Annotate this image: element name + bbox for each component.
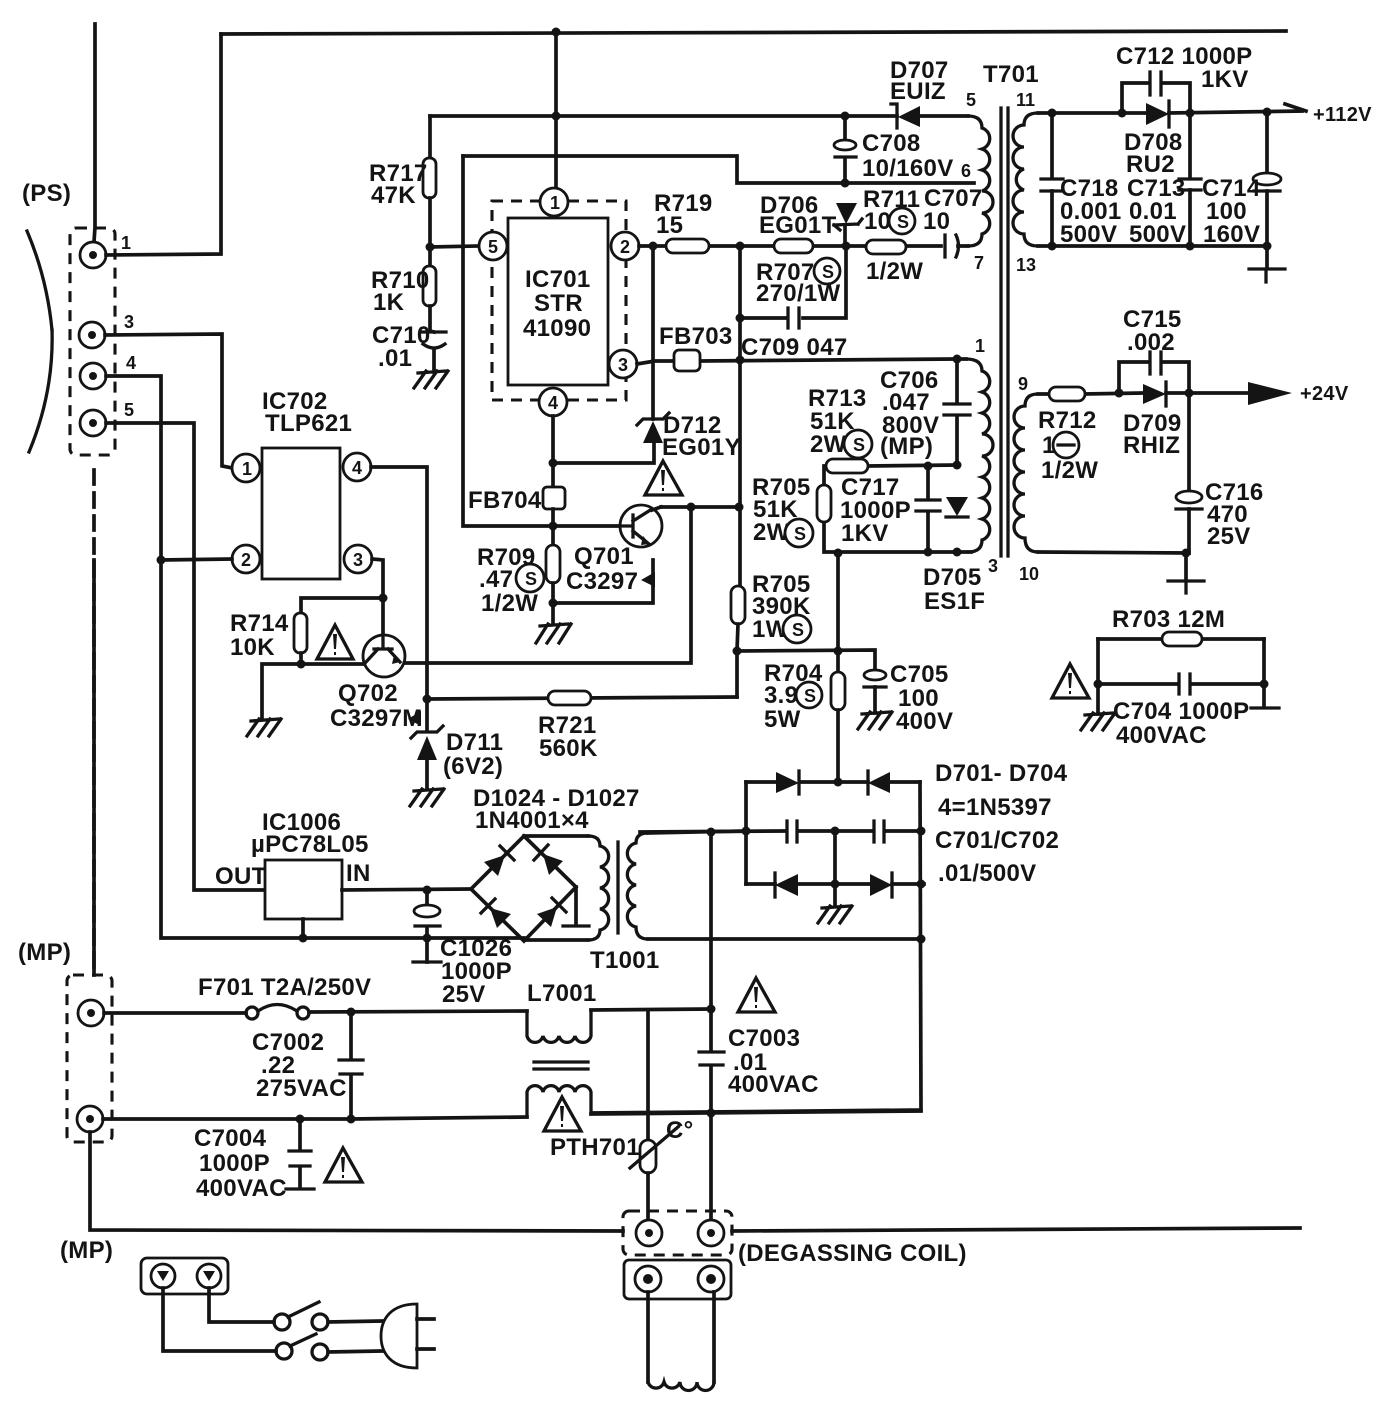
wire: IC702 pin2 to left vertical [161,559,232,560]
wire: IC701 pin3 feedback rail to T701 pin1 [637,359,966,364]
svg-text:47K: 47K [371,182,416,209]
ferrite bead FB704 [543,487,565,509]
IC701 pin 5 [479,232,507,260]
ground under C710 [414,371,448,388]
junction mid rail center [831,827,840,836]
mains plug [381,1304,417,1368]
junction R704 top [834,647,843,656]
svg-text:400V: 400V [896,708,953,735]
svg-text:C701/C702: C701/C702 [935,827,1059,854]
capacitor C714 electrolytic [1265,112,1269,246]
capacitor C715 bypass loop [1119,362,1189,393]
svg-text:400VAC: 400VAC [196,1175,287,1202]
wire: 24V return rail pin 10 [1038,552,1189,553]
wire: PS box to MP connector vertical [92,470,96,975]
junction R721 tap [423,695,432,704]
svg-text:C709 047: C709 047 [741,334,848,361]
resistor R710 [423,266,436,306]
wire: PS pin1 to top bus [106,34,221,255]
bridge mid rail with C701 C702 [640,831,921,832]
ground under C705 [858,712,892,729]
wire: pin2 snubber rail y246 [639,244,968,248]
svg-text:1N4001×4: 1N4001×4 [475,807,589,834]
connector PS dashed outline [70,228,115,455]
junction pin1 rail [552,112,561,121]
svg-text:PTH701: PTH701 [550,1134,640,1161]
svg-text:.47: .47 [479,566,513,593]
degaussing coil loop [646,1292,650,1382]
capacitor C717 [926,466,930,552]
svg-text:2W: 2W [810,431,847,458]
junction C708 bottom [841,179,850,188]
capacitor C7004 [298,1119,302,1188]
junction C704 left [1094,680,1103,689]
capacitor C710 [430,306,434,332]
junction C7002 bottom [347,1115,356,1124]
junction FB703 rail crossing [736,356,745,365]
resistor R704 body [836,553,840,672]
capacitor C704 [1098,682,1264,686]
IC702 pin 3 [344,545,372,573]
bridge right leg [594,782,921,1113]
svg-text:15: 15 [656,212,683,239]
wire: snubber box top rail y466 [824,465,957,485]
diode upper-left [484,846,514,876]
connector MP dashed outline [67,975,112,1142]
svg-text:5: 5 [966,90,976,110]
junction [157,556,166,565]
T701 primary lower winding (pins 1-3) [966,359,993,552]
svg-text:TLP621: TLP621 [265,410,352,437]
junction bridge top center [834,778,843,787]
diode D702 [868,771,890,794]
capacitor C713 [1188,113,1192,246]
svg-text:5: 5 [488,237,498,257]
IC702 pin 4 [343,453,371,481]
svg-text:1: 1 [121,233,131,253]
svg-text:FB704: FB704 [468,487,542,514]
IC701 pin 2 [611,232,639,260]
connector PS pin 1 [80,242,106,268]
diode upper-right [534,845,563,875]
wire: IC1006 gnd stem [301,919,305,938]
svg-text:(DEGASSING COIL): (DEGASSING COIL) [738,1240,967,1267]
svg-text:RHIZ: RHIZ [1123,432,1180,459]
wire: 112V return rail pin 13 [1038,244,1267,248]
wire: rail y651 to C705 [737,650,875,671]
svg-text:C704 1000P: C704 1000P [1113,698,1249,725]
capacitor C712 bypass loop [1122,83,1190,113]
wire: R703 right leg [1262,639,1266,707]
transistor Q701 C3297 [620,505,662,547]
diode D703 [775,873,798,897]
svg-text:.01: .01 [378,345,412,372]
svg-text:41090: 41090 [523,315,591,342]
IC701 pin 3 [609,350,637,378]
wire: PS pin3 right and down to IC702 pin1 [105,334,232,468]
capacitor C7003 [699,1052,724,1065]
junction top bus [552,28,561,37]
degauss lower pin right [698,1266,724,1292]
junction pin2 node [649,242,658,251]
junction C717 bottom [924,548,933,557]
top bus wire [221,31,1286,34]
svg-text:(MP): (MP) [18,939,71,966]
wire: R703 left leg to ground [1096,639,1100,714]
svg-text:13: 13 [1016,255,1036,275]
resistor R703 body [1162,632,1202,646]
svg-text:25V: 25V [442,981,486,1008]
svg-text:(6V2): (6V2) [443,753,503,780]
svg-text:1/2W: 1/2W [1041,457,1098,484]
diode D709 RHIZ [1143,382,1166,406]
svg-text:800V: 800V [882,412,939,439]
diode D706 EG01T on x845 [834,203,862,230]
wire: switches to plug [328,1321,384,1352]
svg-text:L7001: L7001 [527,980,597,1007]
resistor R713 body [826,459,868,473]
svg-text:1: 1 [550,193,560,213]
wire: D708 to +112V arrow [1169,111,1302,113]
resistor R705 51K body [817,485,831,522]
svg-text:Q701: Q701 [574,543,634,570]
junction pin4/D712 rail [549,459,558,468]
junction C715 left riser [1115,389,1124,398]
svg-text:7: 7 [974,253,984,273]
svg-text:C3297M: C3297M [330,705,423,732]
wire: to IC701 pin5 [430,246,479,247]
warning triangle near D712 [645,461,682,495]
junction emitter rail [549,599,558,608]
svg-text:500V: 500V [1129,221,1186,248]
svg-text:EG01T: EG01T [759,212,837,239]
svg-text:C3297: C3297 [566,568,638,595]
svg-text:560K: 560K [539,735,598,762]
svg-text:400VAC: 400VAC [728,1071,819,1098]
svg-text:500V: 500V [1060,221,1117,248]
junction C712 right riser [1186,109,1195,118]
svg-text:C708: C708 [862,130,921,157]
junction mid-right leg [917,827,926,836]
svg-text:R712: R712 [1038,407,1097,434]
wire: FB704 to base rail [551,509,555,526]
ferrite bead FB703 [674,350,700,371]
svg-text:9: 9 [1018,374,1028,394]
wire: degauss hot drop from T1001 [709,832,713,1220]
wire: IC702 pin3 down to Q702 [372,559,383,634]
junction L7001/C7003 node [707,1005,716,1014]
small arrow by Q701 label [641,572,655,587]
wire: R721 rail [427,697,737,699]
diode D708 RU2 [1146,101,1169,127]
junction C714 [1263,108,1272,117]
svg-text:1: 1 [242,459,252,479]
junction C706 bottom [953,461,962,470]
junction C7002 top [347,1008,356,1017]
svg-text:11: 11 [1016,90,1035,110]
diode lower-left [481,899,511,928]
thermistor PTH701 [646,1011,650,1140]
svg-text:2: 2 [620,237,630,257]
choke L7001 bottom winding [527,1086,591,1117]
wire: PS pin5 down to IC1006 OUT [106,423,265,890]
svg-text:1000P: 1000P [199,1150,270,1177]
svg-text:S: S [804,686,816,706]
resistor R703 12M network top wire [1098,637,1264,641]
junction pin5 node [426,243,435,252]
svg-text:6: 6 [961,161,971,181]
diode D705 ES1F on x957 [946,497,968,517]
connector MP pin bottom [77,1106,103,1132]
resistor R714 body [294,613,307,653]
capacitor C718 [1050,113,1054,246]
junction D705 bottom [953,548,962,557]
chassis bar under C7004 [286,1187,314,1190]
svg-text:Q702: Q702 [338,680,398,707]
+112V arrow head [1285,104,1306,111]
diode lower-right [537,898,566,927]
resistor R721 body [548,691,591,705]
svg-text:3: 3 [988,556,998,576]
wire: fuse to L7001 [309,1011,527,1012]
switch upper [274,1302,328,1330]
IC702 body [262,448,340,579]
ground under base rail [247,719,281,736]
fuse F701 [246,1005,309,1020]
svg-text:D701- D704: D701- D704 [935,760,1068,787]
wire: MP return long bottom rail [90,1132,623,1231]
svg-text:3: 3 [124,312,134,332]
zener D711 [411,726,443,788]
svg-text:T1001: T1001 [590,947,660,974]
T701 secondary upper winding (pins 11-13) [1013,113,1038,246]
diamond rectifier D1024-D1027 [471,836,576,941]
junctions on return rail [1048,242,1057,251]
junction C7003 bottom on neutral [707,1109,716,1118]
svg-text:10: 10 [1019,564,1039,584]
diamond right corner ground [574,887,578,925]
IC701 pin 1 [540,188,568,216]
resistor R712 body [1049,387,1085,401]
warning triangle under L7001 [544,1097,581,1131]
wire: IC702 pin4 right then down [371,467,427,731]
junction C709 left [736,314,745,323]
svg-text:10K: 10K [230,634,275,661]
T1001 secondary winding [627,833,648,939]
ground under R709 [536,624,571,643]
ground under C714 [1265,246,1269,268]
svg-text:1/2W: 1/2W [481,590,538,617]
svg-text:.002: .002 [1127,329,1175,356]
capacitor C705 [864,670,886,680]
capacitor C1026 electrolytic [425,890,429,962]
svg-text:C7004: C7004 [194,1125,267,1152]
wire: degauss line to right edge [732,1228,1300,1231]
T1001 core [616,842,619,933]
wire: PS pin4 down long left vertical [106,376,524,938]
wire: L7001 top out [591,1009,711,1010]
svg-text:D711: D711 [446,729,503,756]
junction C704 right [1260,680,1269,689]
wire: MP neutral rail [103,1117,527,1119]
junction gnd rail [299,934,308,943]
junction C708 top [841,112,850,121]
wire: Q701 emitter rail [553,560,653,603]
junction R705 riser [735,503,744,512]
center column to ground [833,831,837,905]
junction degauss feed [707,828,716,837]
flameproof mark R705 390K [783,615,811,643]
wire: rail y156 with step to T701 pin 6 [463,156,974,183]
junction C1026 on gnd rail [423,934,432,943]
connector PS pin 3 [79,322,105,348]
svg-text:1/2W: 1/2W [866,258,923,285]
diode D701 [776,771,799,794]
wire: Q702 base rail and ground drop [262,664,363,718]
ground under D711 [410,789,444,806]
bridge bottom rail [746,882,924,886]
capacitor C708 on x845 [843,116,847,246]
degauss lower pin left [635,1266,661,1292]
wire: right pin to switch [209,1288,274,1322]
T701 secondary lower winding (pins 9-10) [1014,394,1038,552]
svg-text:EG01Y: EG01Y [662,434,741,461]
degauss upper pin left [636,1220,662,1246]
svg-text:S: S [792,620,804,640]
junction D706 node [842,242,851,251]
resistor R709 body [551,526,555,545]
svg-text:S: S [853,435,865,455]
wire: left riser x463 and Q701 base rail [463,156,620,526]
svg-text:S: S [897,212,909,232]
IC701 body [508,218,608,385]
C709 snubber loop [740,246,846,586]
junction bottom-right leg [917,880,926,889]
warning triangle near C704 [1052,664,1089,698]
svg-text:R703 12M: R703 12M [1112,606,1225,633]
svg-text:160V: 160V [1203,221,1260,248]
connector mains input [141,1258,228,1294]
IC701 pin 4 [539,388,567,416]
wire: L7001 bottom out [591,1111,921,1114]
svg-text:STR: STR [534,290,583,317]
flameproof mark R707 [814,258,840,284]
+24V arrow head solid [1248,382,1292,405]
bridge left leg [744,782,748,884]
connector degauss upper dashed [623,1211,732,1255]
resistor R707 body [774,239,813,253]
svg-text:275VAC: 275VAC [256,1075,347,1102]
warning triangle near C7004 [325,1148,362,1182]
junction C716 riser [1185,389,1194,398]
svg-text:C705: C705 [890,661,949,688]
svg-text:5: 5 [124,400,134,420]
connector degauss lower [624,1260,731,1299]
mains pin right [197,1264,221,1288]
svg-text:10: 10 [864,208,891,235]
degauss upper pin right [698,1220,724,1246]
svg-text:IC701: IC701 [525,266,591,293]
junction R704 riser top [834,549,843,558]
wire: R705 rail down to R721 corner [735,651,739,697]
svg-text:400VAC: 400VAC [1116,722,1207,749]
flameproof mark R704 [796,682,822,708]
svg-text:1KV: 1KV [1201,66,1249,93]
switch lower [276,1334,328,1360]
choke L7001 core [534,1062,588,1069]
svg-text:EUIZ: EUIZ [890,78,946,105]
svg-text:C°: C° [666,1117,694,1144]
fusible mark R712 [1053,432,1079,458]
svg-text:S: S [822,262,834,282]
transistor Q702 C3297M [363,635,405,677]
capacitor C706 on x957 [955,359,959,465]
diode D704 [870,873,892,897]
ground under R703 left leg [1081,713,1115,730]
svg-text:3: 3 [353,550,363,570]
IC702 pin 1 [232,454,260,482]
svg-text:FB703: FB703 [659,323,733,350]
flameproof mark R713 [844,430,872,458]
junction C706 top [953,355,962,364]
warning triangle near R714 [317,625,353,659]
wire: to R714 top [301,598,383,613]
flameproof mark R705 51K [785,519,813,547]
svg-text:C7003: C7003 [728,1025,800,1052]
flameproof mark R709 [516,564,544,592]
T701 primary upper winding (pins 5-6-7) [968,116,993,246]
svg-text:RU2: RU2 [1126,151,1175,178]
svg-text:25V: 25V [1207,523,1251,550]
resistor R717 [428,116,432,158]
junction C712 left riser [1118,109,1127,118]
svg-text:S: S [525,569,537,589]
svg-text:3.9: 3.9 [764,682,798,709]
wire: D709 to +24V arrow [1166,391,1250,395]
wire: R714 bottom to base rail [299,653,303,664]
svg-text:10/160V: 10/160V [862,155,954,182]
wire: T1001 secondary top to bridge [648,831,746,833]
svg-text:ES1F: ES1F [924,588,985,615]
chassis bar under C1026 [413,960,441,963]
svg-text:(PS): (PS) [22,180,71,207]
wire: MP line feed [104,1011,246,1015]
junction bottom rail center [831,880,840,889]
svg-text:1K: 1K [373,289,405,316]
svg-text:T701: T701 [983,61,1039,88]
wire: +112V rail from pin 11 [1038,111,1146,115]
svg-text:F701 T2A/250V: F701 T2A/250V [198,974,371,1001]
junction [297,660,306,669]
svg-text:S: S [794,524,806,544]
wire: pin4 rail to D712 [553,444,654,463]
wire: Q701 collector rail [661,505,739,509]
svg-text:(MP): (MP) [60,1237,113,1264]
connector MP pin top [78,1000,104,1026]
wire: IC1006 IN to diamond bridge [342,889,471,890]
wire: IC701 pin4 down to FB704 node [551,416,555,487]
junction C716 bottom [1182,549,1191,558]
T1001 primary winding [524,834,588,838]
svg-text:4=1N5397: 4=1N5397 [938,794,1052,821]
resistor R711 body [866,240,906,254]
capacitor C707 [945,235,959,257]
small arrow by Q702 label [408,711,421,726]
svg-text:OUT: OUT [215,863,267,890]
warning triangle above C7003 [738,978,775,1012]
wire: VCC rail y116 [430,114,845,118]
bridge rectifier D701-D704 top rail [746,780,920,784]
